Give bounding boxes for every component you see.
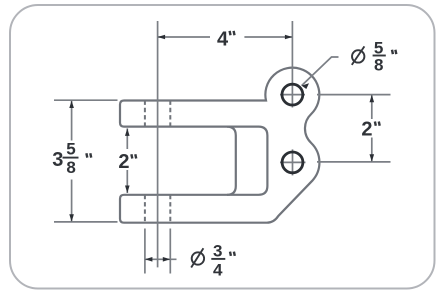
dimension right 2in arrow top [370, 95, 375, 103]
dimension 3-5/8 line [71, 101, 73, 141]
dimension 4in arrow right [285, 35, 293, 40]
svg-text:5: 5 [66, 139, 75, 158]
dimension 3-5/8 extension line top [54, 99, 118, 101]
dimension 3/4 extension line left [144, 229, 146, 274]
svg-text:8: 8 [374, 56, 383, 75]
dimension 3-5/8 extension line bottom [54, 221, 118, 223]
hidden hole line right (top prong) [169, 101, 171, 127]
hole top 5/8 [282, 84, 303, 105]
hole bottom crosshair vertical [292, 149, 294, 175]
leader 5/8 arrow [302, 83, 309, 89]
dimension inner 2in arrow top [125, 128, 130, 136]
svg-text:3: 3 [52, 149, 63, 171]
dimension 4in arrow left [158, 35, 166, 40]
dimension 3/4 arrow right [163, 257, 171, 262]
hidden hole line left (bottom prong) [144, 195, 146, 223]
dimension 4in line [158, 36, 210, 38]
svg-text:2: 2 [118, 151, 129, 173]
dimension 3/4 line [145, 258, 177, 260]
dimension right 2in line [371, 95, 373, 119]
hole top crosshair horizontal [280, 94, 305, 96]
part outline [120, 68, 319, 223]
dimension 3/4 arrow left [145, 257, 153, 262]
dimension 3-5/8 arrow top [69, 101, 74, 109]
hidden hole line right (bottom prong) [169, 195, 171, 223]
dimension inner 2in arrow bottom [125, 186, 130, 194]
centerline small hole [157, 21, 159, 267]
hole bottom 5/8 [282, 152, 303, 173]
dimension right 2in arrow bottom [370, 154, 375, 162]
dimension right 2in extension line top [317, 94, 391, 96]
svg-text:3: 3 [213, 242, 222, 261]
dimension 3-5/8 arrow bottom [69, 214, 74, 222]
label 5/8 diameter symbol [352, 46, 365, 65]
hole bottom crosshair horizontal [280, 161, 306, 163]
leader 5/8 line [302, 57, 339, 86]
hidden hole line left (top prong) [144, 101, 146, 127]
dimension 3/4 extension line right [169, 229, 171, 274]
svg-text:4: 4 [213, 260, 223, 279]
svg-text:2: 2 [361, 118, 372, 140]
svg-text:4: 4 [217, 29, 229, 51]
web inner edge [227, 127, 236, 195]
dimension right 2in extension line bottom [317, 161, 391, 163]
svg-text:8: 8 [66, 158, 75, 177]
dimension inner 2in line [126, 128, 128, 149]
label 3/4 diameter symbol [191, 248, 204, 267]
centerline big holes vertical [291, 21, 293, 108]
